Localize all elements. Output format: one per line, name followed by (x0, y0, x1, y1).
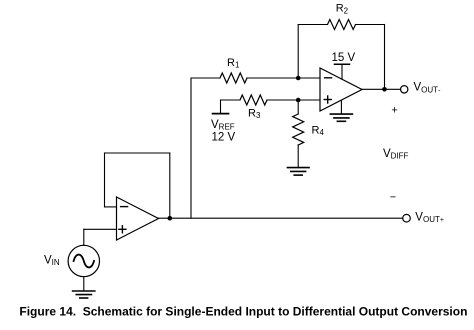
wire: R3 right lead to U1 noninverting input (267, 99, 320, 101)
wire: R3 left lead (221, 99, 241, 101)
wire: U2 feedback left vertical (104, 153, 106, 207)
wire: R1 right lead to U1 inverting input (247, 77, 320, 79)
resistor R3 (240, 95, 267, 105)
resistor R4 (293, 114, 304, 145)
wire: R2 loop left vertical (297, 25, 299, 79)
svg-text:−: − (390, 191, 396, 203)
terminal VOUT- open circle (401, 86, 408, 93)
wire: R2 top right lead (356, 24, 385, 26)
U1 plus sign (324, 96, 331, 103)
U1 minus sign (325, 77, 332, 79)
node: junction R2/U1 output (382, 87, 387, 92)
node: junction U2 output/feedback (168, 216, 173, 221)
U2 plus sign (119, 226, 126, 233)
wire: VIN source top lead (83, 229, 85, 245)
ground under R4 (287, 168, 309, 176)
wire: U2 feedback right vertical (169, 153, 171, 218)
svg-text:R1: R1 (227, 57, 240, 70)
wire: R2 loop right vertical to output node (384, 25, 386, 90)
resistor R2 (328, 20, 356, 30)
supply rail bar 15V (335, 63, 350, 65)
wire: U2 feedback top horizontal (105, 152, 170, 154)
wire: left long vertical from R1 node down to VOUT+ line (190, 78, 192, 218)
ground under U1 (330, 114, 352, 121)
ground under VIN (73, 291, 95, 298)
op-amp U2 (117, 197, 159, 240)
U1 supply pin wire (341, 64, 343, 79)
svg-text:VOUT-: VOUT- (414, 82, 442, 95)
svg-text:R4: R4 (312, 125, 325, 138)
node: junction R3/R4 at U1 noninverting input (296, 98, 301, 103)
op-amp U1 (320, 68, 362, 111)
terminal VOUT+ open circle (403, 214, 411, 222)
node: junction R1/R2 at U1 inverting input (296, 76, 301, 81)
wire: VIN source bottom lead (83, 277, 85, 291)
wire: R4 top lead (297, 100, 299, 114)
U1 ground pin wire (340, 100, 342, 114)
wire: U2 output to VOUT+ terminal (159, 217, 403, 219)
U2 minus sign (121, 206, 128, 208)
svg-text:VDIFF: VDIFF (383, 148, 409, 161)
wire: R2 top left lead (298, 24, 327, 26)
svg-text:R2: R2 (336, 3, 349, 16)
wire: R4 bottom lead to ground (297, 145, 299, 167)
wire: VIN to U2 noninverting input (84, 228, 117, 230)
wire: U1 output to VOUT- terminal (362, 88, 401, 90)
svg-text:Figure 14. Schematic for Sing: Figure 14. Schematic for Single-Ended In… (19, 305, 467, 319)
svg-text:15 V: 15 V (332, 52, 356, 64)
svg-text:VOUT+: VOUT+ (415, 211, 444, 224)
svg-text:VREF: VREF (211, 119, 235, 132)
wire: U2 feedback stub to inverting input (105, 206, 117, 208)
wire: VREF vertical stub (220, 100, 222, 114)
source VIN circle (68, 245, 99, 276)
svg-text:12 V: 12 V (212, 131, 236, 143)
svg-text:+: + (391, 104, 397, 116)
svg-text:R3: R3 (248, 108, 261, 121)
wire: R1 left lead (191, 77, 220, 79)
source VIN sine (74, 255, 94, 268)
resistor R1 (220, 73, 247, 83)
vref terminal bar (213, 113, 229, 115)
svg-text:VIN: VIN (44, 255, 60, 268)
